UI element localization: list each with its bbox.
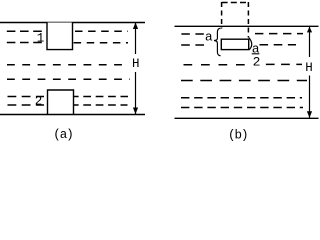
dashed level row a6 left	[8, 104, 45, 106]
dashed level row b3 left	[184, 64, 246, 66]
arrowhead up (a)	[133, 22, 138, 29]
fraction bar	[252, 53, 260, 55]
dashed level row b4	[181, 80, 307, 82]
dashed level row a4 full	[7, 78, 130, 80]
svg-text:(a): (a)	[53, 128, 73, 142]
dashed ghost rect top edge	[222, 2, 249, 4]
right paren marking a/2	[249, 38, 252, 50]
dashed level row b1 right	[255, 33, 303, 35]
block 2 resting on bottom	[48, 90, 74, 115]
dashed ghost rect right side	[247, 2, 249, 38]
bottom line (a)	[0, 114, 145, 116]
surface line top (b)	[175, 25, 319, 27]
dashed level row a2 left	[7, 42, 44, 44]
block 1 hanging below surface	[47, 23, 73, 50]
dashed ghost rect left side	[221, 2, 223, 29]
dimension arrow H (b) lower segment	[309, 76, 311, 118]
dimension arrow H (a) upper segment	[135, 23, 137, 54]
dashed level row b3 right	[266, 63, 302, 65]
dashed level row b2 right	[260, 44, 297, 46]
dashed level row b1 left	[181, 33, 204, 35]
svg-text:2: 2	[35, 95, 43, 109]
dimension arrow H (b) upper segment	[309, 27, 311, 57]
svg-text:2: 2	[253, 54, 261, 69]
dashed level row a5 left	[8, 96, 45, 98]
dashed level row b6	[181, 107, 303, 109]
block (b) submerged	[221, 39, 248, 49]
brace a left of block	[214, 28, 221, 56]
svg-text:a: a	[205, 30, 213, 45]
arrowhead down (b)	[307, 111, 312, 118]
arrowhead up (b)	[307, 27, 312, 33]
dashed level row a1 left	[7, 30, 44, 32]
dimension arrow H (a) lower segment	[135, 72, 137, 114]
bottom line (b)	[175, 117, 319, 119]
dashed level row a5 right	[71, 96, 128, 98]
dashed level row a3 full	[7, 64, 127, 66]
svg-text:H: H	[305, 61, 313, 75]
svg-text:1: 1	[37, 32, 45, 46]
svg-text:(b): (b)	[228, 129, 248, 142]
dashed level row a6 right	[71, 104, 128, 106]
arrowhead down (a)	[133, 108, 138, 115]
dashed level row a2 right	[74, 42, 128, 44]
dashed level row a1 right	[75, 30, 128, 32]
dashed level row b5	[181, 97, 302, 99]
dashed level row b2 left	[181, 44, 206, 46]
surface line top (a)	[0, 22, 145, 24]
svg-text:H: H	[132, 57, 140, 71]
